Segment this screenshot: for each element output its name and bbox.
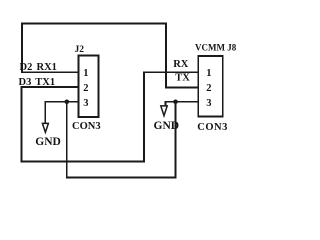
svg-text:1: 1 [206, 68, 211, 79]
wire J2 pin 3 to GND [45, 101, 78, 103]
svg-text:1: 1 [83, 68, 88, 79]
wire RX1 into J2 pin 1 [22, 71, 79, 73]
svg-text:D3: D3 [19, 77, 32, 88]
svg-text:TX1: TX1 [35, 77, 55, 88]
svg-text:VCMM J8: VCMM J8 [195, 43, 237, 53]
wire right GND drop [165, 102, 167, 106]
svg-text:J2: J2 [75, 45, 85, 55]
wire top route horizontal (J2.1 to J8.2) [22, 23, 166, 25]
wire TX into J8 pin 2 [166, 87, 198, 89]
svg-text:2: 2 [83, 83, 88, 94]
wire mid vertical up to RX [143, 72, 145, 161]
wire J8 pin 3 to GND [166, 101, 199, 103]
svg-text:RX: RX [173, 59, 189, 70]
svg-text:3: 3 [206, 98, 211, 109]
ground symbol left (open arrow) [42, 123, 48, 132]
svg-text:3: 3 [83, 98, 88, 109]
wire left bottom vertical (TX1 down) [21, 87, 23, 162]
svg-text:CON3: CON3 [72, 121, 101, 132]
wire RX into J8 pin 1 [144, 71, 198, 73]
ground symbol right (open arrow) [161, 106, 167, 116]
svg-text:D2: D2 [20, 62, 33, 73]
wire GND branch vertical down [66, 102, 68, 178]
junction dot on J8 pin 3 net [173, 100, 178, 105]
wire TX1 into J2 pin 2 [22, 86, 79, 88]
wire left GND drop [44, 102, 46, 123]
svg-text:TX: TX [175, 73, 190, 84]
junction dot on J2 pin 3 net [65, 100, 70, 105]
connector J2 box [79, 55, 99, 117]
svg-text:GND: GND [35, 136, 61, 148]
wire right GND vertical up [175, 102, 177, 178]
svg-text:CON3: CON3 [197, 122, 228, 133]
connector J8 box [198, 56, 223, 117]
wire top route right vertical down [165, 24, 167, 88]
svg-text:2: 2 [206, 83, 211, 94]
svg-text:RX1: RX1 [37, 62, 57, 73]
wire bottom run 1 [22, 161, 145, 163]
wire left vertical from top route down to RX1 [21, 24, 23, 73]
wire bottom run 2 (GND bus) [67, 177, 176, 179]
svg-text:GND: GND [154, 120, 180, 132]
